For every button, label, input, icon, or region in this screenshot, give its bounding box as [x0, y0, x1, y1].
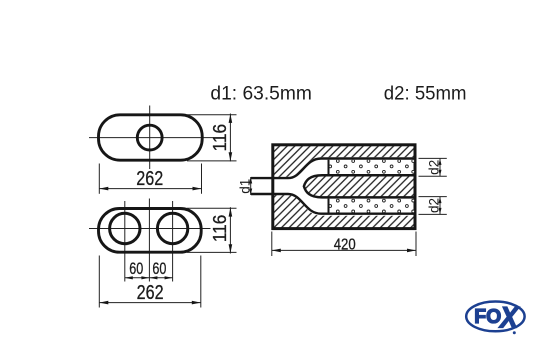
dim d2 top extension upper	[419, 157, 447, 159]
svg-text:X: X	[498, 302, 520, 335]
dim 60 left arrow left	[125, 276, 133, 279]
centerline vertical right pipe view2	[172, 201, 174, 282]
centerline vertical middle view2	[148, 199, 150, 282]
dim 116 view1 extension bottom	[187, 160, 237, 162]
dim 60 right line	[149, 277, 172, 279]
svg-text:262: 262	[136, 168, 163, 190]
dim 420 arrow right	[407, 249, 416, 253]
oval shell view2	[99, 209, 202, 253]
centerline horizontal view2	[89, 228, 211, 230]
dim 116 view1 extension top	[187, 114, 237, 116]
dim 116 view2 extension top	[187, 207, 237, 209]
dim d2 top arrow up	[439, 159, 442, 165]
svg-text:420: 420	[334, 237, 356, 254]
dim 262 view1 extension right	[201, 164, 203, 194]
dim d2 top extension lower	[419, 175, 447, 177]
dim 262 view1 extension left	[98, 164, 100, 194]
centerline vertical view1	[149, 106, 151, 170]
dim d2 bottom line	[439, 197, 441, 215]
muffler body hatched interior	[273, 145, 415, 229]
dim 262 view2 arrow right	[192, 301, 201, 305]
dim 420 extension right	[415, 232, 417, 257]
pipe hole view1	[137, 125, 162, 150]
dim 60 right arrow right	[165, 276, 173, 279]
dim d1 arrow bottom	[249, 189, 252, 195]
oval shell view1	[99, 115, 203, 160]
perforated lining bottom branch	[329, 199, 415, 213]
muffler body outline	[273, 145, 415, 229]
svg-text:d2: d2	[427, 198, 442, 213]
dim 262 view1 arrow left	[99, 187, 108, 191]
dim d2 bottom extension lower	[419, 213, 447, 215]
svg-text:d1: 63.5mm: d1: 63.5mm	[210, 83, 312, 104]
svg-text:FO: FO	[474, 306, 501, 328]
hatched wedge between branches	[304, 175, 415, 197]
dim d2 bottom arrow up	[439, 197, 442, 203]
dim 116 view2 arrow bottom	[229, 244, 233, 253]
dim d2 bottom extension upper	[419, 196, 447, 198]
dim 116 view1 line	[229, 114, 231, 162]
perforation boundary bottom branch	[328, 199, 330, 213]
dim 116 view1 arrow top	[229, 114, 233, 123]
dim d1 arrow top	[249, 177, 252, 183]
centerline vertical left pipe view2	[124, 201, 126, 282]
logo registered dot	[513, 331, 516, 334]
pipe outer wall bottom	[251, 194, 415, 214]
dim 60 left line	[125, 277, 150, 279]
perforation boundary top branch	[328, 160, 330, 174]
dim 116 view2 arrow top	[229, 208, 233, 217]
dim 262 view2 extension left	[98, 256, 100, 308]
logo ellipse	[466, 302, 524, 332]
dim 60 right arrow left	[149, 276, 157, 279]
svg-text:60: 60	[129, 260, 143, 278]
dim d2 bottom arrow down	[439, 208, 442, 214]
perforated lining top branch	[329, 160, 415, 174]
dim 262 view2 line	[99, 302, 201, 304]
pipe hole left view2	[110, 213, 140, 243]
dim 262 view1 arrow right	[193, 187, 202, 191]
dim 116 view1 arrow bottom	[229, 152, 233, 161]
dim 116 view2 line	[229, 207, 231, 253]
svg-text:116: 116	[209, 215, 230, 243]
dim d2 top arrow down	[439, 170, 442, 176]
dim 60 left arrow right	[141, 276, 149, 279]
dim 262 view1 line	[99, 188, 201, 190]
svg-text:262: 262	[137, 282, 164, 304]
pipe outer wall top	[251, 159, 415, 179]
svg-text:d1: d1	[237, 179, 252, 194]
svg-text:d2: d2	[427, 160, 442, 175]
dim 420 arrow left	[272, 249, 281, 253]
dim 420 line	[272, 249, 416, 251]
dim d2 top line	[439, 158, 441, 176]
dim 262 view2 extension right	[200, 256, 202, 308]
dim 262 view2 arrow left	[99, 301, 108, 305]
svg-text:60: 60	[152, 260, 166, 278]
pipe hole right view2	[157, 213, 187, 243]
dim d1 line	[250, 177, 252, 195]
Y-pipe white cavity	[251, 157, 415, 215]
centerline horizontal view1	[89, 137, 214, 139]
dim 420 extension left	[271, 232, 273, 257]
dim 116 view2 extension bottom	[187, 251, 237, 253]
svg-text:d2: 55mm: d2: 55mm	[384, 84, 467, 105]
svg-text:116: 116	[209, 124, 230, 152]
